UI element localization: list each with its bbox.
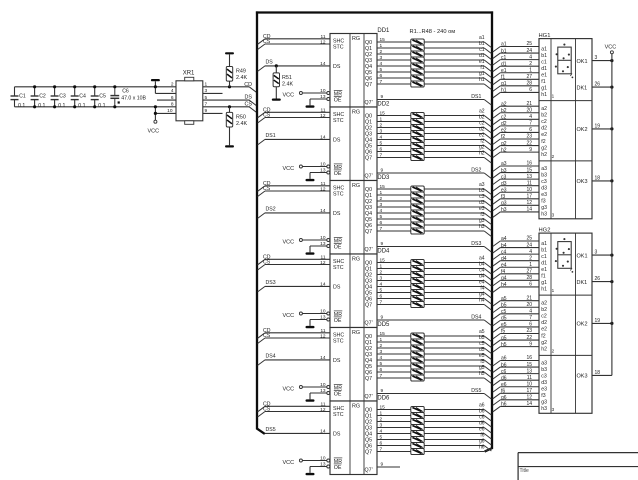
svg-text:h3: h3 — [541, 406, 547, 412]
svg-text:14: 14 — [526, 401, 532, 407]
svg-text:c3: c3 — [501, 174, 507, 180]
label HG2 pin name e1 — [541, 267, 547, 273]
svg-text:g4: g4 — [501, 276, 507, 282]
wire DD2 Q7&#8217; net DS2 — [377, 167, 491, 178]
display HG2 — [539, 233, 592, 413]
svg-text:RG: RG — [352, 183, 360, 189]
wire DD3 Q3 — [377, 202, 411, 208]
svg-text:RG: RG — [352, 403, 360, 409]
wire net d3 to bus — [424, 200, 491, 213]
svg-text:15: 15 — [380, 331, 386, 337]
power VCC to DD2 pin 10 — [283, 162, 327, 172]
wire DD6 Q6 — [377, 441, 411, 447]
svg-text:3: 3 — [380, 423, 383, 429]
svg-text:STC: STC — [333, 265, 344, 271]
wire net d1 to bus — [424, 53, 491, 66]
svg-text:f3: f3 — [541, 393, 545, 399]
svg-text:CS: CS — [263, 113, 271, 119]
svg-text:RG: RG — [352, 330, 360, 336]
wire net g3 to bus — [424, 218, 491, 231]
svg-text:17: 17 — [526, 194, 532, 200]
svg-text:Q7’: Q7’ — [365, 394, 373, 400]
svg-text:12: 12 — [320, 407, 326, 413]
resistor R6 — [411, 69, 424, 75]
wire DD5 Q7&#8217; net DS5 — [377, 388, 491, 399]
wire DD4 Q4 — [377, 282, 411, 288]
svg-text:h3: h3 — [541, 212, 547, 218]
svg-text:g1: g1 — [501, 81, 507, 87]
svg-text:20: 20 — [526, 107, 532, 113]
svg-text:15: 15 — [380, 184, 386, 190]
svg-text:12: 12 — [526, 200, 532, 206]
svg-text:4: 4 — [380, 61, 383, 67]
svg-text:STC: STC — [333, 412, 344, 418]
svg-text:h6: h6 — [501, 402, 507, 408]
bus top connecting line — [256, 11, 493, 13]
wire net h4 to bus — [424, 297, 491, 310]
svg-text:6: 6 — [171, 95, 174, 101]
svg-text:1: 1 — [552, 94, 555, 99]
wire DD4 Q1 — [377, 264, 411, 270]
svg-text:47.0 x 10B: 47.0 x 10B — [121, 96, 146, 102]
svg-text:d3: d3 — [541, 185, 547, 191]
svg-text:24: 24 — [526, 48, 532, 54]
wire net a6 to bus — [424, 402, 491, 415]
label DD4 — [377, 249, 390, 255]
svg-text:g3: g3 — [541, 400, 547, 406]
wire DD3 Q0 — [377, 184, 411, 190]
svg-text:DS1: DS1 — [471, 94, 481, 100]
wire net b4 to HG2 pin 24 — [493, 242, 539, 253]
wire DD2 Q3 — [377, 129, 411, 135]
svg-text:VCC: VCC — [283, 239, 295, 245]
svg-text:e2: e2 — [501, 128, 507, 134]
svg-text:DK1: DK1 — [577, 85, 588, 91]
wire net g1 to bus — [424, 71, 491, 84]
ground at DD5 pin 13 — [306, 388, 327, 401]
label HG1 pin name b2 — [541, 113, 547, 119]
label HG1 pin name e1 — [541, 73, 547, 79]
wire CD to DD2 pin 11 — [258, 107, 330, 117]
wire DS3 to DD4 pin 14 — [258, 280, 330, 292]
svg-text:VCC: VCC — [283, 460, 295, 466]
svg-text:OK3: OK3 — [577, 374, 588, 380]
svg-text:6: 6 — [380, 73, 383, 79]
svg-text:1: 1 — [529, 67, 532, 73]
label HG2 pin name d3 — [541, 380, 547, 386]
wire XR1 pin 2 to top rail — [171, 82, 174, 88]
wire DD5 Q0 — [377, 331, 411, 337]
wire net g1 to HG1 pin 28 — [493, 81, 539, 92]
resistor R2 — [411, 45, 424, 51]
wire net d1 to HG1 pin 2 — [493, 61, 539, 72]
ground at DD1 pin 13 — [306, 94, 327, 108]
svg-text:d2: d2 — [541, 320, 547, 326]
resistor R7 — [411, 75, 424, 81]
wire DD6 Q5 — [377, 435, 411, 441]
resistor R28 — [411, 278, 424, 284]
wire net a2 to HG1 pin 21 — [493, 101, 539, 112]
svg-text:14: 14 — [320, 355, 326, 361]
wire net h2 to HG1 pin 9 — [493, 147, 539, 158]
wire net b2 to bus — [424, 114, 491, 127]
wire DS4 to DD5 pin 14 — [258, 354, 330, 366]
shift register DD6 — [327, 401, 377, 475]
svg-text:4: 4 — [529, 249, 532, 255]
wire DD2 Q4 — [377, 135, 411, 141]
label HG1 pin name a3 — [541, 166, 547, 172]
wire DD2 Q1 — [377, 117, 411, 123]
svg-text:f1: f1 — [501, 75, 505, 81]
label HG1 pin name b3 — [541, 172, 547, 178]
svg-text:15: 15 — [380, 111, 386, 117]
svg-text:b3: b3 — [541, 172, 547, 178]
svg-text:DS4: DS4 — [471, 314, 481, 320]
svg-text:DS: DS — [245, 95, 253, 101]
svg-text:e3: e3 — [541, 387, 547, 393]
wire net b3 to bus — [424, 188, 491, 201]
svg-text:2: 2 — [380, 343, 383, 349]
svg-text:12: 12 — [320, 39, 326, 45]
svg-text:d1: d1 — [541, 260, 547, 266]
label HG2 pin name f3 — [541, 393, 545, 399]
wire net a3 to bus — [424, 182, 491, 195]
svg-text:DS: DS — [333, 211, 341, 217]
svg-text:Title: Title — [520, 468, 529, 474]
capacitor C4 — [71, 85, 86, 109]
common bar at XR1 pin 2 — [151, 79, 160, 88]
resistor R1 — [411, 39, 424, 45]
svg-text:a1: a1 — [541, 241, 547, 247]
wire net f5 to bus — [424, 359, 491, 372]
svg-text:2: 2 — [380, 417, 383, 423]
svg-text:OK2: OK2 — [577, 127, 588, 133]
svg-text:d3: d3 — [501, 181, 507, 187]
wire DD3 Q7&#8217; net DS3 — [377, 241, 491, 252]
svg-text:DS3: DS3 — [471, 241, 481, 247]
svg-text:10: 10 — [167, 108, 173, 114]
svg-text:e4: e4 — [501, 262, 507, 268]
svg-text:c1: c1 — [541, 254, 547, 260]
svg-text:b1: b1 — [541, 247, 547, 253]
wire net a1 to HG1 pin 25 — [493, 41, 539, 52]
svg-text:6: 6 — [529, 322, 532, 328]
power VCC to DD4 pin 10 — [283, 309, 327, 319]
resistor R24 — [411, 228, 424, 234]
svg-text:XR1: XR1 — [183, 71, 195, 77]
svg-text:a6: a6 — [501, 356, 507, 362]
svg-text:4: 4 — [529, 309, 532, 315]
svg-text:25: 25 — [526, 236, 532, 242]
svg-text:3: 3 — [380, 202, 383, 208]
label HG1 OK1 — [577, 59, 588, 65]
svg-text:6: 6 — [380, 220, 383, 226]
svg-text:f6: f6 — [501, 389, 505, 395]
wire DD2 Q6 — [377, 147, 411, 153]
svg-text:e1: e1 — [541, 73, 547, 79]
svg-text:3: 3 — [595, 250, 598, 256]
wire DD4 Q0 — [377, 258, 411, 264]
svg-text:5: 5 — [380, 288, 383, 294]
wire DD6 Q1 — [377, 411, 411, 417]
wire net g2 to HG1 pin 22 — [493, 140, 539, 151]
svg-text:DS: DS — [333, 431, 341, 437]
label HG2 pin name f2 — [541, 333, 545, 339]
label HG2 — [539, 228, 551, 234]
label HG2 pin name c2 — [541, 314, 547, 320]
svg-text:OE: OE — [334, 465, 342, 471]
svg-text:2: 2 — [380, 123, 383, 129]
svg-text:d4: d4 — [501, 256, 507, 262]
svg-text:Q7: Q7 — [365, 156, 372, 162]
wire CD to DD3 pin 11 — [258, 181, 330, 191]
svg-text:13: 13 — [526, 174, 532, 180]
svg-text:h4: h4 — [501, 282, 507, 288]
wire net f5 to HG2 pin 23 — [493, 328, 539, 339]
svg-text:c6: c6 — [501, 369, 507, 375]
svg-text:d5: d5 — [501, 316, 507, 322]
wire net d3 to HG1 pin 11 — [493, 180, 539, 191]
svg-text:10: 10 — [526, 187, 532, 193]
svg-text:12: 12 — [320, 186, 326, 192]
svg-text:HG1: HG1 — [539, 33, 551, 39]
resistor R40 — [411, 375, 424, 381]
svg-text:DD2: DD2 — [377, 102, 390, 108]
wire net c1 to HG1 pin 4 — [493, 54, 539, 65]
svg-text:g5: g5 — [501, 335, 507, 341]
wire DD1 Q7&#8217; net DS1 — [377, 94, 491, 105]
resistor R34 — [411, 339, 424, 345]
svg-text:e3: e3 — [501, 187, 507, 193]
wire DD6 Q7&#8217; stub — [377, 461, 400, 467]
wire XR1 pin 1 net CD — [203, 82, 257, 93]
svg-text:f1: f1 — [541, 79, 545, 85]
wire XR1 pin 8 to bottom rail — [171, 102, 174, 108]
svg-text:f3: f3 — [501, 194, 505, 200]
wire net d4 to HG2 pin 2 — [493, 255, 539, 266]
label HG1 pin name b1 — [541, 53, 547, 59]
svg-text:h4: h4 — [479, 297, 485, 303]
label section index 3 of HG2 — [552, 407, 555, 412]
wire HG1 OK1 pin 3 to VCC rail — [592, 55, 614, 62]
wire net f2 to bus — [424, 138, 491, 151]
wire DD1 Q6 — [377, 73, 411, 79]
svg-text:c2: c2 — [541, 314, 547, 320]
svg-text:DS5: DS5 — [266, 427, 276, 433]
wire DD2 Q7 — [377, 153, 411, 159]
wire DS5 to DD6 pin 14 — [265, 427, 330, 435]
svg-text:b1: b1 — [541, 53, 547, 59]
label HG1 pin name d1 — [541, 66, 547, 72]
label HG1 pin name a1 — [541, 46, 547, 52]
wire XR1 pin 7 net CS — [203, 101, 257, 112]
svg-text:9: 9 — [381, 167, 384, 173]
display HG1 — [539, 39, 592, 219]
svg-text:15: 15 — [526, 167, 532, 173]
svg-text:1: 1 — [380, 190, 383, 196]
wire net h5 to HG2 pin 9 — [493, 341, 539, 352]
capacitor C1 — [11, 87, 26, 109]
label HG2 pin name h1 — [541, 287, 547, 293]
seven-segment glyph in HG1 — [555, 44, 573, 79]
wire net f4 to bus — [424, 285, 491, 298]
svg-text:10: 10 — [526, 381, 532, 387]
svg-text:1: 1 — [380, 411, 383, 417]
resistor R23 — [411, 222, 424, 228]
svg-text:3: 3 — [205, 88, 208, 94]
resistor R45 — [411, 431, 424, 437]
wire net e3 to HG1 pin 10 — [493, 187, 539, 198]
wire net e5 to bus — [424, 353, 491, 366]
svg-text:9: 9 — [381, 314, 384, 320]
wire DD4 Q6 — [377, 294, 411, 300]
wire net h3 to HG1 pin 14 — [493, 207, 539, 218]
svg-text:DD1: DD1 — [377, 28, 390, 34]
svg-text:1: 1 — [380, 337, 383, 343]
wire net b6 to HG2 pin 15 — [493, 362, 539, 373]
svg-text:CS: CS — [263, 260, 271, 266]
capacitor C2 — [31, 85, 46, 109]
label HG2 pin name b2 — [541, 307, 547, 313]
svg-text:h3: h3 — [501, 207, 507, 213]
svg-text:13: 13 — [320, 94, 326, 100]
svg-text:C3: C3 — [59, 93, 66, 99]
svg-text:3: 3 — [552, 213, 555, 218]
svg-text:9: 9 — [529, 341, 532, 347]
svg-text:Q7: Q7 — [365, 376, 372, 382]
svg-text:R51: R51 — [282, 75, 292, 81]
svg-text:2: 2 — [529, 61, 532, 67]
svg-text:24: 24 — [526, 242, 532, 248]
svg-text:RG: RG — [352, 256, 360, 262]
label HG2 pin name a1 — [541, 241, 547, 247]
label HG1 pin name h1 — [541, 92, 547, 98]
wire DD1 Q5 — [377, 67, 411, 73]
svg-text:2.4K: 2.4K — [282, 81, 293, 87]
wire bottom supply rail — [15, 106, 177, 108]
label section index 1 of HG1 — [552, 94, 555, 99]
svg-text:12: 12 — [320, 333, 326, 339]
svg-text:b5: b5 — [501, 302, 507, 308]
shift register DD4 — [327, 254, 377, 328]
svg-text:OK1: OK1 — [577, 59, 588, 65]
wire DD5 Q1 — [377, 337, 411, 343]
wire net c2 to bus — [424, 120, 491, 133]
ground at DD6 pin 13 — [306, 462, 327, 475]
wire net e4 to bus — [424, 279, 491, 292]
svg-text:Q7: Q7 — [365, 82, 372, 88]
resistor R44 — [411, 425, 424, 431]
wire XR1 pin 6 stub — [157, 95, 176, 101]
wire XR1 pin 10 — [154, 105, 176, 120]
svg-text:Q7’: Q7’ — [365, 174, 373, 180]
wire net h1 to bus — [424, 77, 491, 90]
svg-text:6: 6 — [529, 282, 532, 288]
svg-text:OE: OE — [334, 98, 342, 104]
svg-text:13: 13 — [320, 241, 326, 247]
label HG1 pin name c1 — [541, 59, 547, 65]
resistor R29 — [411, 284, 424, 290]
svg-text:28: 28 — [526, 81, 532, 87]
svg-text:f2: f2 — [501, 134, 505, 140]
svg-text:c1: c1 — [501, 55, 507, 61]
title block — [518, 453, 638, 480]
svg-text:R1...R48 - 240 ом: R1...R48 - 240 ом — [410, 29, 456, 35]
wire HG1 DK1 pin 26 to VCC rail — [592, 82, 614, 89]
label HG1 pin name d3 — [541, 185, 547, 191]
svg-text:18: 18 — [595, 175, 601, 181]
svg-text:7: 7 — [380, 226, 383, 232]
svg-text:13: 13 — [320, 462, 326, 468]
label HG1 pin name h2 — [541, 152, 547, 158]
svg-text:DS: DS — [333, 137, 341, 143]
svg-text:e6: e6 — [501, 382, 507, 388]
svg-text:a3: a3 — [541, 166, 547, 172]
wire net g4 to bus — [424, 291, 491, 304]
wire HG1 OK3 pin 18 to VCC rail — [592, 175, 614, 182]
resistor R15 — [411, 149, 424, 155]
svg-text:6: 6 — [380, 294, 383, 300]
svg-text:d1: d1 — [501, 61, 507, 67]
svg-text:11: 11 — [321, 328, 326, 334]
svg-text:14: 14 — [320, 135, 326, 141]
svg-text:R49: R49 — [236, 68, 246, 74]
svg-text:RG: RG — [352, 36, 360, 42]
wire DD1 Q7 — [377, 79, 411, 85]
svg-text:5: 5 — [380, 435, 383, 441]
ground at DD4 pin 13 — [306, 315, 327, 328]
svg-text:13: 13 — [320, 388, 326, 394]
svg-text:C1: C1 — [19, 93, 26, 99]
power VCC to DD6 pin 10 — [283, 456, 327, 466]
svg-text:6: 6 — [380, 367, 383, 373]
wire DD5 Q5 — [377, 361, 411, 367]
svg-text:DS3: DS3 — [266, 280, 276, 286]
svg-text:10: 10 — [320, 235, 326, 241]
svg-text:1: 1 — [380, 264, 383, 270]
svg-text:3: 3 — [552, 407, 555, 412]
label HG2 OK1 — [577, 253, 588, 259]
svg-text:DD3: DD3 — [377, 175, 390, 181]
svg-text:13: 13 — [526, 368, 532, 374]
svg-text:a1: a1 — [501, 42, 507, 48]
svg-text:c1: c1 — [541, 59, 547, 65]
wire net a6 to HG2 pin 16 — [493, 355, 539, 366]
svg-text:Q7’: Q7’ — [365, 321, 373, 327]
svg-text:4: 4 — [171, 88, 174, 94]
svg-text:1: 1 — [380, 43, 383, 49]
svg-text:11: 11 — [321, 34, 326, 40]
resistor R11 — [411, 125, 424, 131]
resistor R17 — [411, 186, 424, 192]
svg-text:c2: c2 — [541, 119, 547, 125]
wire DD5 Q7 — [377, 373, 411, 379]
svg-text:5: 5 — [380, 141, 383, 147]
wire net c1 to bus — [424, 47, 491, 60]
wire net d5 to bus — [424, 347, 491, 360]
wire XR1 pin 5 net DS — [203, 95, 257, 106]
svg-text:7: 7 — [529, 315, 532, 321]
svg-text:OE: OE — [334, 392, 342, 398]
power VCC to DD3 pin 10 — [283, 235, 327, 245]
svg-text:VCC: VCC — [283, 166, 295, 172]
resistor R10 — [411, 119, 424, 125]
svg-text:b2: b2 — [541, 307, 547, 313]
svg-text:5: 5 — [380, 67, 383, 73]
svg-text:3: 3 — [380, 349, 383, 355]
wire DD4 Q7 — [377, 300, 411, 306]
wire net a5 to bus — [424, 329, 491, 342]
